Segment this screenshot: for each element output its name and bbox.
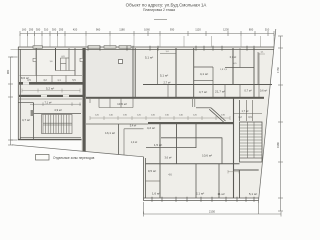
interior diagonal wall — [209, 108, 225, 122]
small rooms band x99-133 y100-107 — [99, 107, 133, 109]
small bath partitions — [56, 58, 76, 71]
wall x36 top-left — [35, 48, 37, 76]
svg-text:5,1 м²: 5,1 м² — [160, 74, 168, 78]
small rooms x99-133 verticals — [90, 98, 195, 108]
svg-text:1230: 1230 — [223, 28, 229, 32]
svg-text:0,5 м²: 0,5 м² — [148, 169, 156, 173]
wall x176 — [175, 48, 177, 98]
svg-text:4,1 м²: 4,1 м² — [200, 72, 208, 76]
south-east block walls — [159, 124, 161, 198]
left corridor dim — [22, 89, 80, 93]
room fill top-left lighter — [19, 48, 81, 80]
svg-text:0,7 м²: 0,7 м² — [244, 89, 251, 93]
column in hall — [119, 60, 123, 64]
svg-text:4,2 м²: 4,2 м² — [147, 126, 155, 130]
stair bottom wall — [20, 136, 81, 138]
door leaf on thick wall — [80, 58, 83, 61]
door block right of room 4.7 — [31, 110, 34, 116]
svg-text:1,2 м²: 1,2 м² — [131, 141, 138, 144]
wall x233 lower — [233, 97, 235, 198]
staircase left — [42, 115, 73, 134]
corridor south wall left section — [19, 95, 86, 97]
svg-text:4,9 м²: 4,9 м² — [54, 108, 62, 112]
partition x168 band — [167, 85, 169, 98]
rooms x86-143 between corridor and diagonal — [118, 124, 120, 154]
partitions in band y85-97 — [225, 85, 240, 97]
duct wall y108 — [196, 107, 211, 109]
small dim on wall y170 — [228, 170, 239, 174]
svg-text:21,7 м²: 21,7 м² — [215, 90, 225, 94]
svg-text:2,7 м²: 2,7 м² — [164, 81, 171, 85]
wall x213 — [212, 67, 214, 98]
wall left edge of south-east block — [144, 157, 146, 201]
door gap in stair bottom wall — [61, 136, 70, 138]
room wall above stair — [34, 113, 82, 115]
svg-text:4,7 м²: 4,7 м² — [199, 90, 207, 94]
svg-text:13,1 м²: 13,1 м² — [105, 131, 115, 135]
right dimension line — [278, 36, 283, 211]
svg-text:510: 510 — [265, 28, 270, 32]
top outer wall — [18, 47, 274, 49]
window jamb ticks top wall — [88, 46, 254, 51]
svg-text:7,1 м²: 7,1 м² — [45, 101, 52, 105]
closet dividers — [37, 76, 67, 83]
room 4.7 top wall — [18, 102, 33, 104]
wall x233 top — [232, 48, 234, 85]
top dimension line — [20, 31, 274, 36]
room fill big centre hall — [86, 48, 133, 97]
bottom main wall — [144, 198, 259, 201]
bottom dimension line — [144, 202, 282, 217]
corridor south wall west part — [86, 123, 148, 125]
svg-text:5,1 м²: 5,1 м² — [249, 192, 257, 196]
svg-text:3,6 м²: 3,6 м² — [165, 156, 172, 160]
svg-text:0,6 м²: 0,6 м² — [260, 89, 267, 93]
svg-text:1,7 м²: 1,7 м² — [242, 109, 249, 113]
svg-text:930: 930 — [170, 28, 175, 32]
svg-text:1,6 м²: 1,6 м² — [152, 192, 160, 196]
wall y84.5 right section — [143, 84, 272, 86]
svg-text:4,7 м²: 4,7 м² — [22, 118, 30, 122]
lot boundary slanted right edge — [258, 29, 276, 203]
corridor south wall (dark) — [148, 122, 234, 124]
wall x133 (east of hall) — [133, 48, 135, 98]
left dimension line — [8, 57, 18, 145]
left outer wall — [18, 47, 20, 140]
svg-text:800: 800 — [249, 28, 254, 32]
svg-text:160: 160 — [22, 28, 27, 32]
small dim 1.1 top-right — [259, 53, 265, 55]
building interior fill — [18, 47, 274, 198]
wall x33.5 (landing) — [33, 103, 35, 140]
svg-text:13,6 м²: 13,6 м² — [117, 102, 127, 106]
svg-text:5,2 м²: 5,2 м² — [46, 87, 54, 91]
closet row top line — [20, 75, 83, 77]
right small rooms north band verticals — [239, 100, 241, 121]
svg-text:5,4 м²: 5,4 м² — [130, 125, 137, 128]
door gaps left section walls — [23, 82, 29, 84]
svg-text:1060: 1060 — [144, 28, 150, 32]
shelf in room x157-176 — [160, 53, 176, 55]
svg-text:11 м²: 11 м² — [217, 192, 224, 196]
svg-text:310: 310 — [44, 28, 49, 32]
svg-text:Отдельные зоны переходов: Отдельные зоны переходов — [53, 156, 95, 160]
wall x75 — [74, 48, 76, 76]
top dimension numbers — [22, 28, 270, 32]
svg-text:5,1 м²: 5,1 м² — [145, 56, 153, 60]
wall y80.7 x194-213 — [194, 80, 213, 82]
svg-text:1,9 1,3: 1,9 1,3 — [220, 69, 227, 71]
svg-text:1980: 1980 — [276, 142, 280, 148]
wall y67.5 top-right — [225, 67, 254, 69]
staircase right — [240, 122, 263, 162]
svg-text:960: 960 — [96, 28, 101, 32]
svg-text:420: 420 — [73, 28, 78, 32]
closet row bottom thick wall — [19, 82, 86, 85]
wall x240 top-right — [239, 48, 241, 68]
room labels — [21, 51, 267, 196]
svg-text:980: 980 — [6, 69, 10, 74]
thin line under corridor wall — [19, 98, 82, 100]
window lintel top-left — [33, 46, 43, 48]
svg-text:2150: 2150 — [209, 210, 216, 214]
title block — [126, 3, 207, 20]
svg-text:295: 295 — [29, 28, 34, 32]
svg-text:0,7 м²: 0,7 м² — [230, 56, 237, 59]
wall x259 top-right — [258, 53, 260, 98]
wall x69 small bath — [68, 48, 70, 71]
wall x254 top-right — [253, 48, 255, 98]
bottom-left wall — [18, 139, 82, 141]
svg-text:300: 300 — [52, 28, 57, 32]
svg-text:Планировка 2 этажа: Планировка 2 этажа — [143, 8, 175, 12]
thick central vertical wall — [83, 48, 86, 152]
window lintels over hall — [88, 46, 100, 49]
svg-text:1750: 1750 — [276, 67, 280, 73]
stair hall dim line — [30, 102, 81, 106]
corridor north wall main — [86, 97, 264, 99]
wall x194 — [193, 48, 195, 98]
svg-text:1180: 1180 — [119, 28, 125, 32]
lot boundary diagonal bottom-left — [12, 145, 144, 157]
wall y67 x194-213 — [194, 66, 213, 68]
svg-text:1120: 1120 — [195, 28, 201, 32]
svg-text:300: 300 — [36, 28, 41, 32]
svg-text:1,5 м²: 1,5 м² — [154, 143, 162, 147]
corridor dim numbers — [95, 115, 225, 117]
wall x258 top-right strip — [257, 52, 259, 85]
wall x157 — [157, 48, 159, 85]
svg-text:295: 295 — [59, 28, 64, 32]
extension lines from top dim to wall — [11, 34, 275, 50]
svg-text:2,1 м²: 2,1 м² — [196, 192, 204, 196]
legend — [36, 155, 95, 161]
svg-text:10,6 м²: 10,6 м² — [202, 154, 212, 158]
corridor internal dim ticks — [90, 116, 230, 120]
wall x55.5 top-left — [55, 48, 57, 71]
door leaf on wall x36 — [33, 58, 36, 61]
window jamb ticks bottom wall — [152, 197, 254, 202]
svg-text:Объект по адресу: ул.Буд.Смоль: Объект по адресу: ул.Буд.Смольная 1А — [126, 3, 207, 8]
